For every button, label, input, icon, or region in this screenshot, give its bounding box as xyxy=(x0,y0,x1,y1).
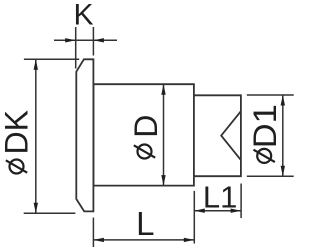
D1 extension line bottom xyxy=(247,175,294,177)
L arrowhead right (points right) xyxy=(184,238,195,242)
diameter symbol of DK xyxy=(10,160,24,174)
K arrowhead left (points right) xyxy=(65,38,76,42)
DK arrowhead up xyxy=(34,59,38,69)
diameter symbol of D xyxy=(138,145,152,159)
D arrowhead down xyxy=(161,175,165,186)
K extension line left xyxy=(75,27,77,69)
DK dimension line xyxy=(35,59,37,213)
DK arrowhead down xyxy=(34,203,38,214)
svg-text:DK: DK xyxy=(0,110,35,154)
L1 arrowhead left (points left) xyxy=(194,209,205,213)
D1 dimension line xyxy=(282,95,284,176)
L1 extension line left / L extension line right xyxy=(193,191,195,244)
D1 arrowhead up xyxy=(281,95,285,106)
DK extension line bottom xyxy=(24,212,76,214)
D dimension line xyxy=(163,84,165,185)
D1 arrowhead down xyxy=(281,166,285,177)
diameter symbol of D1 xyxy=(257,149,271,163)
main cylinder body (middle) xyxy=(93,84,193,185)
D arrowhead up xyxy=(161,84,165,95)
L1 extension line right xyxy=(240,184,242,219)
K dimension line xyxy=(54,39,117,41)
outlet cylinder (right) xyxy=(194,95,241,176)
L1 arrowhead right (points right) xyxy=(231,209,242,213)
K extension line right xyxy=(92,27,94,56)
svg-text:L1: L1 xyxy=(203,180,237,215)
svg-text:D1: D1 xyxy=(247,104,283,148)
L arrowhead left (points left) xyxy=(93,238,104,242)
internal cone chevron xyxy=(221,111,241,160)
DK extension line top xyxy=(24,58,79,60)
svg-text:K: K xyxy=(73,0,93,32)
K arrowhead right (points left) xyxy=(93,38,104,42)
svg-text:L: L xyxy=(136,205,154,242)
flange ferrule body (left) xyxy=(76,59,93,211)
D1 extension line top xyxy=(247,94,294,96)
L dimension line xyxy=(93,239,194,241)
L1 dimension line xyxy=(194,210,241,212)
L extension line left xyxy=(92,218,94,248)
svg-text:D: D xyxy=(128,115,164,138)
